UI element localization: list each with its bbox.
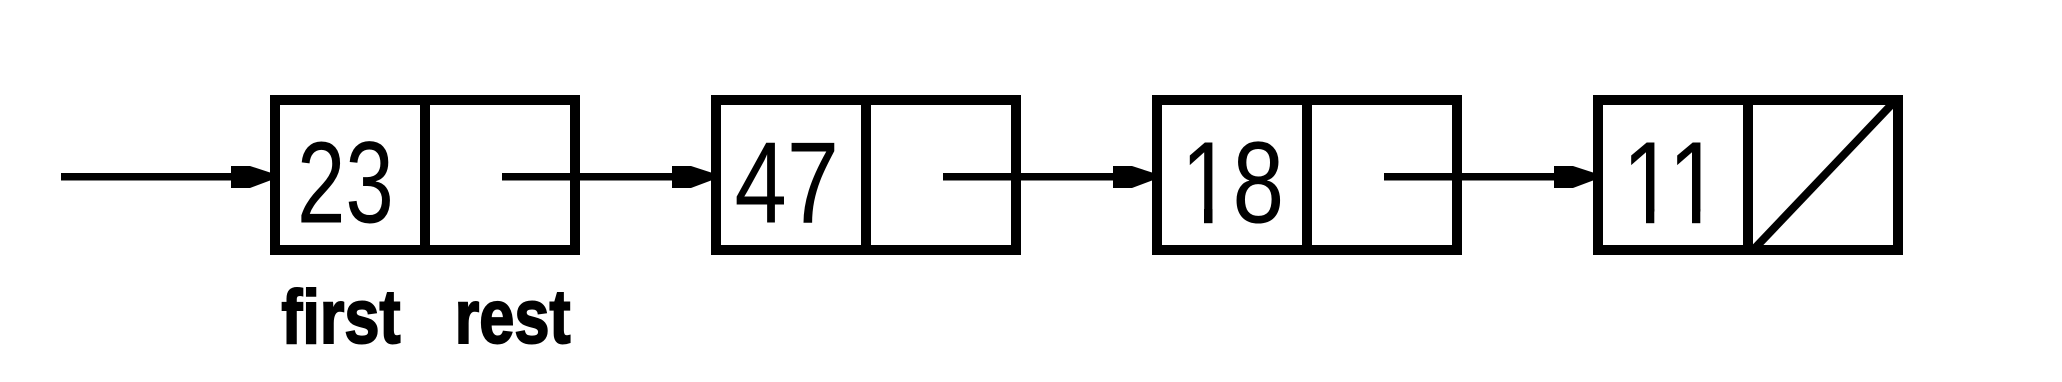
node 2 box (value cell + rest cell) [716, 100, 1016, 250]
svg-text:23: 23 [297, 117, 394, 247]
field label "rest" under node 1 rest cell [455, 274, 571, 359]
node 4 box (value cell + rest cell) [1598, 100, 1898, 250]
node 4 divider [1743, 95, 1753, 255]
arrowhead into node 4 [1554, 166, 1593, 188]
svg-text:first: first [281, 274, 400, 359]
wire: pointer line node 3 -> node 4 [1384, 173, 1560, 181]
wire: pointer line node 2 -> node 3 [943, 173, 1119, 181]
node 3 box (value cell + rest cell) [1157, 100, 1457, 250]
svg-text:47: 47 [734, 118, 839, 248]
node 1 box (value cell + rest cell) [275, 100, 575, 250]
node 3 value label 18 [1181, 119, 1284, 248]
arrowhead into node 3 [1113, 166, 1152, 188]
node 2 value label 47 [734, 118, 839, 248]
node 2 divider [861, 95, 871, 255]
node 1 value label 23 [297, 117, 394, 247]
wire: pointer line node 1 -> node 2 [502, 173, 678, 181]
svg-text:18: 18 [1181, 119, 1284, 248]
node 4 value label 11 [1622, 118, 1721, 248]
svg-text:11: 11 [1622, 118, 1721, 248]
wire: head pointer line into node 1 [61, 173, 237, 181]
node 1 divider [420, 95, 430, 255]
node 3 divider [1302, 95, 1312, 255]
arrowhead into node 2 [672, 166, 711, 188]
field label "first" under node 1 value cell [281, 274, 400, 359]
null marker diagonal in node 4 rest cell [1755, 102, 1894, 248]
svg-text:rest: rest [455, 274, 571, 359]
arrowhead into node 1 [231, 166, 270, 188]
